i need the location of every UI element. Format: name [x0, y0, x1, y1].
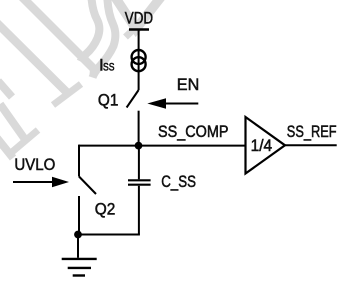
- switch Q1 blade: [127, 90, 139, 108]
- current source Iss (two overlapping circles): [132, 50, 146, 71]
- wire Q1 to node SS_COMP: [138, 111, 140, 146]
- watermark inner curve: [81, 0, 100, 62]
- svg-text:SS_COMP: SS_COMP: [158, 122, 229, 141]
- capacitor C_SS plates: [128, 179, 151, 181]
- svg-text:SS_REF: SS_REF: [287, 122, 337, 141]
- watermark stroke E: [0, 81, 12, 97]
- UVLO arrow (points right at Q2): [13, 181, 53, 183]
- VDD rail bar: [129, 28, 149, 31]
- bottom junction dot: [74, 231, 82, 239]
- watermark V tail below bar: [126, 29, 135, 37]
- svg-text:Q1: Q1: [98, 90, 119, 109]
- node wire SS_COMP (horizontal): [79, 145, 246, 147]
- svg-text:Q2: Q2: [95, 199, 116, 218]
- svg-text:UVLO: UVLO: [14, 155, 55, 174]
- watermark outer curve: [93, 0, 116, 78]
- watermark serif of stroke A: [53, 84, 81, 105]
- watermark V shape behind VDD: [115, 0, 161, 29]
- capacitor C_SS top wire: [138, 145, 140, 180]
- capacitor C_SS bottom wire: [138, 186, 140, 235]
- watermark stroke C: [0, 104, 24, 138]
- svg-text:1/4: 1/4: [251, 136, 273, 155]
- wire VDD to current source: [138, 31, 140, 91]
- junction dot at SS_COMP node: [135, 142, 143, 150]
- watermark stroke B tail: [90, 67, 98, 76]
- watermark stroke D: [0, 138, 13, 158]
- op-amp buffer U1 (1/4 gain triangle): [246, 117, 286, 174]
- svg-text:C_SS: C_SS: [161, 172, 196, 191]
- watermark stroke B (diagonal stem): [18, 0, 94, 69]
- wire Q2 to bottom rail: [78, 196, 80, 235]
- switch Q2 blade: [79, 177, 96, 195]
- svg-text:VDD: VDD: [125, 9, 153, 28]
- ground symbol: [62, 259, 97, 276]
- ground stem: [77, 235, 79, 258]
- EN arrow (points left at Q1): [164, 103, 198, 105]
- SS_REF output wire: [285, 144, 337, 146]
- svg-text:SS: SS: [103, 61, 115, 73]
- svg-text:EN: EN: [177, 75, 200, 94]
- wire node down-left corner to Q2: [78, 145, 80, 177]
- watermark serif of stroke C: [12, 130, 38, 152]
- bottom wire: [78, 234, 140, 236]
- watermark stroke A (diagonal stem): [0, 21, 67, 92]
